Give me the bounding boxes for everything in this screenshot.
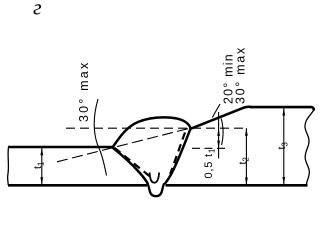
dimension t2 arrows [245, 128, 248, 136]
dimension t3 arrows [282, 108, 285, 116]
groove root radius [150, 173, 160, 183]
dimension 0.5t1 arrows [217, 128, 220, 136]
svg-text:0,5 t1: 0,5 t1 [203, 148, 217, 179]
dimension t1 line [41, 148, 43, 185]
left angle leader arc [94, 99, 106, 176]
left plate bottom edge [8, 184, 147, 187]
left plate break edge [7, 147, 10, 185]
reference line toe-to-toe (dashed) [57, 128, 191, 162]
left plate top edge [8, 146, 113, 149]
right plate bevel edge [191, 107, 253, 129]
weld left edge [113, 148, 149, 185]
right angle vertical line [218, 112, 220, 159]
right angle leader [212, 104, 220, 118]
dimension t1 arrows [40, 148, 43, 156]
weld root bead [148, 183, 165, 196]
svg-text:t3: t3 [276, 142, 290, 150]
right plate wavy break edge [305, 110, 314, 185]
weld right edge [165, 128, 191, 184]
svg-text:t2: t2 [237, 157, 251, 165]
right plate top edge [250, 107, 314, 110]
right angle arc [221, 119, 223, 146]
right plate bottom edge [166, 184, 308, 187]
svg-text:г: г [33, 0, 42, 20]
svg-text:30° max: 30° max [234, 46, 248, 104]
thin sheet surface reference line (dashed) [192, 147, 225, 149]
dimension t3 line [283, 108, 285, 185]
groove left edge (dashed) [115, 148, 151, 177]
svg-text:30° max: 30° max [77, 61, 91, 122]
groove right edge (dashed) [170, 133, 185, 175]
svg-text:t1: t1 [32, 161, 46, 169]
horizontal reference line (dashed) [66, 127, 247, 129]
dimension t2 line [245, 128, 247, 185]
weld cap outline [113, 117, 191, 147]
